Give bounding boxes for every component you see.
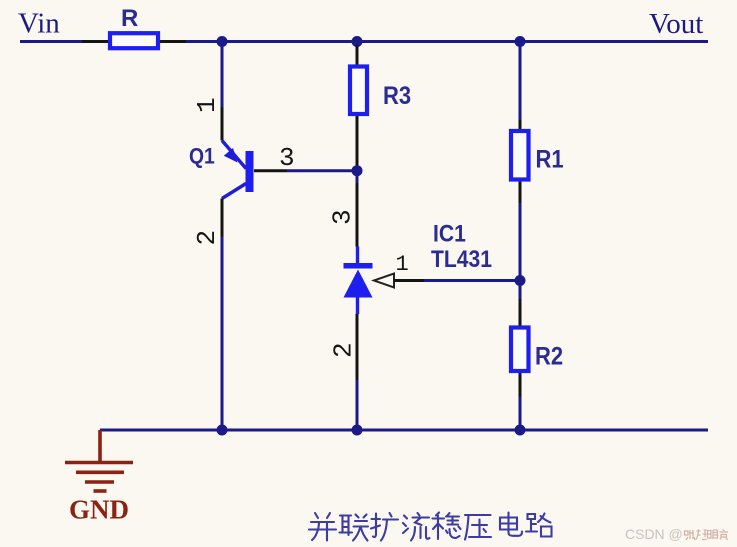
transistor Q1 pin 1 stub (black) — [221, 107, 224, 141]
wire node to TL431 cathode (navy then black pin) — [356, 171, 359, 183]
TL431 pin 3 stub (black, cathode) — [356, 183, 359, 247]
svg-text:GND: GND — [69, 495, 129, 525]
wire Q1 base to R3/TL431 node (navy) — [287, 169, 357, 172]
wire R1 to node (navy) — [519, 203, 522, 299]
TL431 pin 2 stub (black, anode) — [356, 314, 359, 380]
svg-text:Vin: Vin — [18, 8, 60, 40]
svg-text:CSDN @: CSDN @ — [625, 526, 683, 542]
wire Q1 emitter net (navy) — [221, 42, 224, 108]
svg-text:3: 3 — [279, 143, 295, 173]
svg-text:2: 2 — [329, 342, 359, 358]
resistor R1 — [511, 131, 529, 180]
svg-text:1: 1 — [192, 97, 222, 113]
node junction top-right (R1 branch) — [515, 36, 526, 47]
node junction bottom (R2) — [515, 425, 526, 436]
node junction R1/R2/ref — [515, 275, 526, 286]
svg-text:R2: R2 — [535, 342, 563, 370]
transistor Q1 pin 3 stub (black, base) — [254, 169, 287, 172]
TL431 pin 1 stub (black, reference) — [394, 279, 424, 282]
wire Q1 collector to bottom net (navy) — [221, 237, 224, 431]
svg-text:TL431: TL431 — [431, 246, 492, 273]
svg-text:R: R — [121, 5, 138, 32]
ground symbol — [65, 430, 133, 491]
wire R2 to bottom net (navy) — [519, 397, 522, 431]
wire top net Vin to Vout (navy segments) — [20, 40, 708, 43]
transistor Q1 pin 2 stub (black) — [221, 199, 224, 237]
svg-text:Vout: Vout — [649, 8, 703, 40]
svg-text:R3: R3 — [383, 82, 411, 110]
TL431 U1 symbol — [344, 247, 373, 315]
svg-text:Q1: Q1 — [189, 144, 215, 168]
node junction bottom (TL431) — [352, 425, 363, 436]
node junction top-mid (R3 branch) — [352, 36, 363, 47]
resistor R — [110, 33, 158, 48]
wire TL431 anode to bottom net (navy) — [356, 380, 359, 430]
transistor Q1 — [222, 141, 254, 199]
wire TL431 ref to R1/R2 node (navy) — [424, 279, 520, 282]
watermark CJK glyph blocks — [685, 530, 729, 541]
resistor R2 pin stubs (black) — [519, 299, 522, 397]
node junction mid (base/R3/TL431) — [352, 165, 363, 176]
node junction bottom (Q1) — [217, 425, 228, 436]
title 并联扩流稳压电路 (drawn strokes) — [309, 513, 552, 541]
TL431 reference open arrowhead — [374, 274, 394, 288]
svg-text:R1: R1 — [536, 145, 564, 173]
node junction top-left (Q1 branch) — [217, 36, 228, 47]
svg-text:1: 1 — [396, 252, 409, 277]
wire Vout net down to R1 (navy) — [519, 42, 522, 121]
svg-text:3: 3 — [328, 209, 358, 225]
wire bottom ground net (navy) — [100, 429, 708, 432]
resistor R pins (black) — [82, 40, 186, 43]
svg-text:2: 2 — [192, 230, 222, 246]
resistor R3 pin stubs (black) — [356, 45, 359, 166]
resistor R2 — [511, 328, 529, 372]
resistor R1 pin stubs (black) — [519, 120, 522, 203]
svg-text:IC1: IC1 — [433, 220, 466, 247]
resistor R3 — [350, 67, 367, 115]
